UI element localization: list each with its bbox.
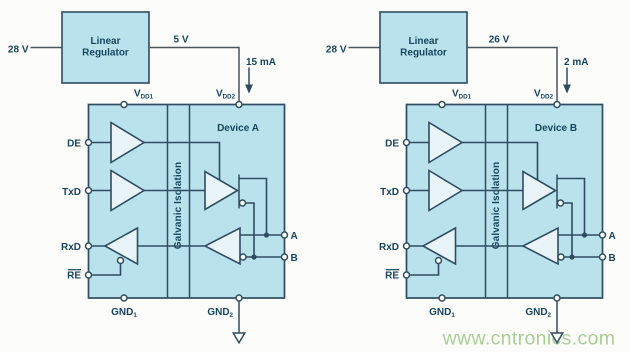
wire DE input (right) [407,142,430,144]
wire 28V input to regulator (right) [349,47,381,49]
svg-text:DE: DE [385,138,399,149]
svg-text:VDD1: VDD1 [452,88,472,100]
svg-text:Device A: Device A [217,123,259,134]
wire 28V input to regulator (left) [31,47,63,49]
terminal VDD1 (left) [121,102,127,108]
inverting bubble RE enable (left) [118,258,124,264]
wire RxD output (left) [89,245,106,247]
svg-text:Linear: Linear [408,36,438,47]
svg-text:Device B: Device B [535,123,577,134]
galvanic isolation barrier (left) [167,105,169,299]
terminal VDD2 (left) [236,102,242,108]
wire DE enable across isolation to driver (right) [462,143,538,181]
linear regulator block (right) [380,12,467,83]
svg-text:RxD: RxD [61,242,81,253]
buffer DE driver-enable (left) [111,123,144,163]
driver output bar (right) [556,175,558,209]
driver output bar (left) [238,175,240,209]
svg-text:B: B [291,253,298,264]
terminal VDD2 (right) [554,102,560,108]
terminal B (left) [282,254,288,260]
wire TxD across isolation to driver input (right) [462,190,523,192]
svg-text:GND1: GND1 [429,307,455,319]
wire GND2 to earth (left) [238,301,240,333]
wire bus line B (left) [246,256,285,258]
wire TxD across isolation to driver input (left) [144,190,205,192]
wire receiver output across isolation (right) [456,245,524,247]
wire bus line A (right) [558,234,603,236]
svg-text:TxD: TxD [62,187,81,198]
svg-text:RxD: RxD [379,242,399,253]
terminal GND2 (right) [554,295,560,301]
terminal GND2 (left) [236,295,242,301]
ground symbol (left) [233,333,245,343]
junction dot line B (left) [251,254,256,259]
svg-text:28 V: 28 V [326,44,347,55]
svg-text:Linear: Linear [90,36,120,47]
wire TxD input (right) [407,190,430,192]
svg-text:VDD2: VDD2 [216,88,236,100]
wire driver noninverting output to line A (left) [239,179,267,236]
svg-text:26 V: 26 V [489,35,510,46]
inverting bubble driver output B (right) [558,200,564,206]
wire bus line B (right) [564,256,603,258]
buffer RxD output (right) [423,228,456,264]
svg-text:RE: RE [67,271,81,282]
svg-text:GND2: GND2 [207,307,233,319]
terminal RxD (left) [86,243,92,249]
wire driver noninverting output to line A (right) [557,179,585,236]
svg-text:A: A [291,231,298,242]
current flow arrow 15 mA (left) [248,68,250,86]
buffer RxD output (left) [105,228,138,264]
wire RE receiver-enable (right) [407,264,439,276]
svg-text:DE: DE [67,138,81,149]
terminal GND1 (left) [121,295,127,301]
inverting bubble driver output B (left) [240,200,246,206]
wire driver inverting output to line B (right) [564,203,573,257]
svg-text:28 V: 28 V [8,44,29,55]
wire bus line A (left) [240,234,285,236]
svg-text:B: B [609,253,616,264]
buffer TxD (right) [429,171,462,211]
terminal DE (left) [86,140,92,146]
svg-text:VDD1: VDD1 [134,88,154,100]
ground symbol (right) [551,333,563,343]
buffer TxD (left) [111,171,144,211]
terminal A (left) [282,232,288,238]
svg-text:Galvanic Isolation: Galvanic Isolation [491,162,502,249]
terminal GND1 (right) [439,295,445,301]
driver amplifier (left) [205,172,238,210]
junction dot line B (right) [569,254,574,259]
svg-text:2 mA: 2 mA [564,57,588,68]
terminal TxD (right) [404,188,410,194]
inverting bubble receiver input B (right) [558,254,564,260]
transceiver device box Device A (left) [89,105,285,299]
svg-text:15 mA: 15 mA [246,57,276,68]
svg-text:www.cntronics.com: www.cntronics.com [442,328,616,350]
inverting bubble receiver input B (left) [240,254,246,260]
svg-text:GND2: GND2 [525,307,551,319]
junction dot line A (right) [582,232,587,237]
terminal RxD (right) [404,243,410,249]
terminal A (right) [600,232,606,238]
terminal B (right) [600,254,606,260]
svg-text:Galvanic Isolation: Galvanic Isolation [173,162,184,249]
linear regulator block (left) [62,12,149,83]
junction dot line A (left) [264,232,269,237]
wire DE enable across isolation to driver (left) [144,143,220,181]
wire regulator output 5 V to VDD2 (left) [149,48,239,104]
terminal DE (right) [404,140,410,146]
buffer DE driver-enable (right) [429,123,462,163]
wire regulator output 26 V to VDD2 (right) [467,48,557,104]
svg-text:5 V: 5 V [173,35,188,46]
terminal RE-bar (right) [404,272,410,278]
wire DE input (left) [89,142,112,144]
svg-text:A: A [609,231,616,242]
svg-text:VDD2: VDD2 [534,88,554,100]
terminal VDD1 (right) [439,102,445,108]
current flow arrow 2 mA (right) [566,68,568,86]
driver amplifier (right) [523,172,556,210]
wire TxD input (left) [89,190,112,192]
svg-text:Regulator: Regulator [82,47,129,58]
svg-text:TxD: TxD [380,187,399,198]
transceiver device box Device B (right) [407,105,603,299]
wire driver inverting output to line B (left) [246,203,255,257]
wire receiver output across isolation (left) [138,245,206,247]
wire RE receiver-enable (left) [89,264,121,276]
svg-text:RE: RE [385,271,399,282]
wire GND2 to earth (right) [556,301,558,333]
terminal TxD (left) [86,188,92,194]
svg-text:Regulator: Regulator [400,47,447,58]
receiver amplifier (left) [205,228,240,264]
receiver amplifier (right) [523,228,558,264]
inverting bubble RE enable (right) [436,258,442,264]
terminal RE-bar (left) [86,272,92,278]
galvanic isolation barrier (right) [485,105,487,299]
svg-text:GND1: GND1 [111,307,137,319]
wire RxD output (right) [407,245,424,247]
